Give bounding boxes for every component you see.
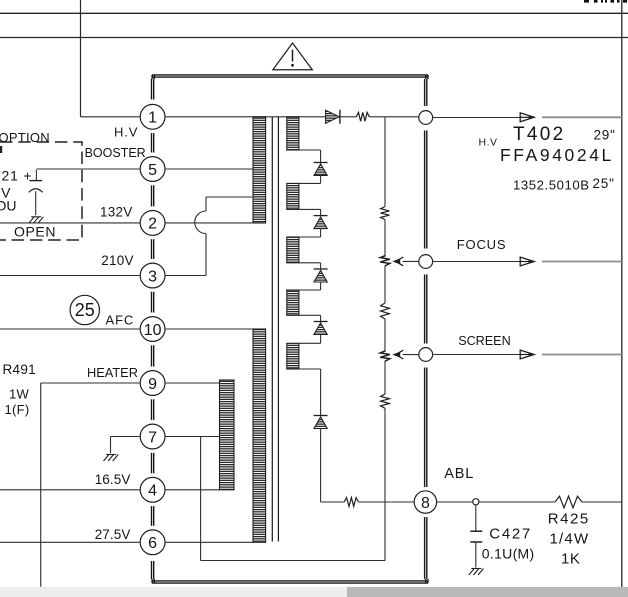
node cropped-label bbox=[584, 0, 627, 3]
resistor divider R1 bbox=[381, 207, 390, 220]
wire bbox=[433, 354, 520, 356]
wire bbox=[384, 266, 386, 303]
wire bbox=[384, 361, 386, 394]
ground bbox=[469, 569, 484, 576]
svg-text:1(F): 1(F) bbox=[5, 402, 30, 417]
capacitor C421 bbox=[29, 170, 43, 216]
label 210V bbox=[101, 253, 134, 268]
wire bbox=[369, 116, 419, 118]
svg-text:7: 7 bbox=[148, 429, 157, 446]
winding primary upper bbox=[253, 117, 266, 223]
wire bbox=[542, 354, 622, 356]
label 132V bbox=[100, 205, 133, 220]
wire bbox=[165, 541, 253, 543]
svg-text:FFA94024L: FFA94024L bbox=[500, 145, 614, 165]
winding heater bbox=[220, 380, 235, 490]
svg-text:H.V: H.V bbox=[114, 125, 138, 140]
label 1352.5010B bbox=[513, 178, 590, 193]
pin 1 bbox=[140, 104, 165, 129]
winding secondary S1 bbox=[287, 117, 299, 150]
label 1/4W bbox=[550, 531, 590, 548]
wire bbox=[433, 117, 520, 119]
svg-text:1K: 1K bbox=[561, 551, 580, 568]
svg-text:16.5V: 16.5V bbox=[95, 472, 131, 487]
wire bbox=[0, 12, 628, 14]
label BOOSTER bbox=[85, 146, 146, 160]
resistor R425 bbox=[555, 496, 582, 508]
wire bbox=[201, 437, 386, 561]
node junction bbox=[473, 499, 479, 505]
wire bbox=[81, 116, 141, 118]
winding primary lower bbox=[253, 329, 266, 542]
svg-text:R425: R425 bbox=[548, 511, 590, 528]
label T402 bbox=[513, 124, 566, 145]
label OPTION bbox=[0, 130, 50, 145]
label AFC bbox=[106, 312, 135, 327]
winding secondary S2 bbox=[287, 183, 299, 209]
wire bbox=[343, 501, 345, 503]
node cropped-label-left bbox=[0, 146, 2, 153]
label OPEN bbox=[14, 224, 56, 240]
wire bbox=[0, 541, 140, 543]
diode D4 bbox=[314, 322, 328, 335]
wire jump bbox=[195, 211, 206, 234]
label 0.1U(M) bbox=[482, 546, 535, 562]
node ref 25 bbox=[70, 295, 99, 324]
pin 3 bbox=[140, 263, 165, 288]
wire bbox=[165, 116, 326, 118]
wire bbox=[621, 0, 623, 597]
svg-text:9: 9 bbox=[148, 376, 157, 393]
terminal SCREEN bbox=[419, 348, 433, 362]
diode D3 bbox=[314, 269, 328, 282]
label 21 + bbox=[2, 168, 33, 184]
resistor divider R2 bbox=[381, 303, 390, 319]
label FOCUS bbox=[457, 237, 507, 252]
wire bbox=[299, 263, 321, 269]
svg-text:R491: R491 bbox=[3, 362, 36, 377]
resistor divider R3 bbox=[381, 394, 390, 408]
wire bbox=[384, 220, 386, 256]
wire bbox=[80, 0, 82, 117]
wire bbox=[299, 209, 321, 215]
svg-text:25": 25" bbox=[593, 176, 615, 191]
wire bbox=[384, 408, 386, 560]
node screen wiper arrow bbox=[392, 350, 419, 359]
svg-text:25: 25 bbox=[75, 300, 95, 320]
svg-text:5: 5 bbox=[148, 162, 157, 179]
wire bbox=[0, 222, 140, 224]
wire bbox=[299, 369, 321, 416]
pin 2 bbox=[140, 211, 165, 236]
wire bbox=[437, 501, 473, 503]
wire bbox=[433, 261, 520, 263]
label SCREEN bbox=[458, 334, 510, 348]
label 27.5V bbox=[95, 527, 131, 542]
svg-text:OU: OU bbox=[0, 198, 17, 214]
wire bbox=[299, 176, 321, 184]
wire bbox=[582, 501, 622, 503]
pin 8 bbox=[414, 491, 436, 513]
option box bbox=[0, 142, 82, 240]
svg-text:BOOSTER: BOOSTER bbox=[85, 146, 146, 160]
node gray strip left bbox=[0, 587, 347, 597]
label 1K bbox=[561, 551, 580, 568]
svg-text:0.1U(M): 0.1U(M) bbox=[482, 546, 535, 562]
svg-text:AFC: AFC bbox=[106, 312, 135, 327]
svg-text:3: 3 bbox=[148, 268, 157, 285]
label 1W bbox=[9, 387, 30, 402]
wire bbox=[384, 117, 386, 206]
terminal H.V bbox=[419, 111, 433, 125]
svg-text:29": 29" bbox=[594, 127, 616, 142]
node H.V lead arrow bbox=[520, 113, 534, 122]
winding secondary S3 bbox=[287, 237, 299, 263]
diode D401 bbox=[326, 110, 340, 124]
terminal FOCUS bbox=[419, 255, 433, 269]
wire bbox=[165, 382, 220, 384]
wire bbox=[41, 383, 141, 587]
pin 9 bbox=[140, 371, 165, 396]
wire bbox=[299, 150, 321, 163]
winding secondary S4 bbox=[287, 290, 299, 315]
svg-text:132V: 132V bbox=[100, 205, 133, 220]
label 1(F) bbox=[5, 402, 30, 417]
svg-text:21 +: 21 + bbox=[2, 168, 33, 184]
wire bbox=[299, 315, 321, 321]
wire bbox=[0, 489, 140, 491]
svg-text:T402: T402 bbox=[513, 124, 566, 145]
wire bbox=[299, 282, 321, 290]
wire bbox=[165, 489, 220, 491]
capacitor C427 bbox=[470, 505, 482, 568]
transformer T402 outline bottom border bbox=[152, 579, 428, 583]
resistor screen wiper bbox=[380, 351, 390, 362]
wire bbox=[384, 319, 386, 351]
node gray strip right bbox=[347, 587, 628, 597]
label H.V bbox=[479, 136, 498, 148]
pin 6 bbox=[140, 530, 165, 555]
wire bbox=[165, 436, 220, 438]
svg-text:8: 8 bbox=[421, 495, 430, 512]
resistor R-hv bbox=[356, 112, 369, 121]
wire bbox=[0, 37, 628, 39]
transformer T402 outline left border bbox=[152, 79, 154, 579]
label 16.5V bbox=[95, 472, 131, 487]
svg-text:SCREEN: SCREEN bbox=[458, 334, 510, 348]
svg-text:210V: 210V bbox=[101, 253, 134, 268]
svg-text:6: 6 bbox=[148, 535, 157, 552]
wire bbox=[321, 429, 345, 503]
svg-text:10: 10 bbox=[144, 322, 162, 339]
svg-text:4: 4 bbox=[148, 483, 157, 500]
wire bbox=[479, 501, 555, 503]
node focus wiper arrow bbox=[392, 257, 419, 266]
label V bbox=[1, 185, 11, 201]
svg-text:FOCUS: FOCUS bbox=[457, 237, 507, 252]
svg-text:1W: 1W bbox=[9, 387, 30, 402]
wire bbox=[206, 197, 253, 211]
svg-text:1/4W: 1/4W bbox=[550, 531, 590, 548]
wire bbox=[36, 168, 140, 170]
svg-text:1352.5010B: 1352.5010B bbox=[513, 178, 590, 193]
resistor R-abl bbox=[344, 498, 358, 507]
pin 10 bbox=[140, 317, 165, 342]
svg-text:HEATER: HEATER bbox=[87, 365, 138, 380]
label ABL bbox=[444, 466, 474, 482]
ground bbox=[104, 455, 119, 462]
wire bbox=[542, 261, 622, 263]
wire bbox=[542, 116, 622, 118]
label FFA94024L bbox=[500, 145, 614, 165]
svg-text:H.V: H.V bbox=[479, 136, 498, 148]
winding secondary S5 bbox=[287, 343, 299, 369]
svg-text:1: 1 bbox=[148, 110, 157, 127]
svg-text:ABL: ABL bbox=[444, 466, 474, 482]
svg-text:OPEN: OPEN bbox=[14, 224, 56, 240]
svg-text:OPTION: OPTION bbox=[0, 130, 50, 145]
wire bbox=[111, 436, 141, 438]
svg-text:C427: C427 bbox=[489, 526, 532, 543]
transformer T402 outline right border bbox=[425, 79, 427, 579]
node SCREEN lead arrow bbox=[520, 350, 534, 359]
wire bbox=[0, 328, 140, 330]
diode D1 bbox=[314, 163, 328, 176]
svg-text:27.5V: 27.5V bbox=[95, 527, 131, 542]
resistor focus wiper bbox=[380, 256, 390, 267]
label HEATER bbox=[87, 365, 138, 380]
label R491 bbox=[3, 362, 36, 377]
core bbox=[272, 117, 278, 542]
wire bbox=[110, 437, 112, 454]
wire bbox=[299, 229, 321, 237]
label H.V bbox=[114, 125, 138, 140]
transformer T402 outline top border bbox=[152, 75, 428, 79]
wire bbox=[341, 116, 357, 118]
label OU bbox=[0, 198, 17, 214]
pin 4 bbox=[140, 477, 165, 502]
label 25" bbox=[593, 176, 615, 191]
wire bbox=[0, 275, 140, 277]
diode D2 bbox=[314, 216, 328, 229]
wire bbox=[165, 168, 253, 170]
pin 5 bbox=[140, 157, 165, 182]
label C427 bbox=[489, 526, 532, 543]
wire bbox=[359, 501, 415, 503]
warning triangle bbox=[273, 43, 312, 70]
node FOCUS lead arrow bbox=[520, 257, 534, 266]
wire bbox=[165, 234, 206, 276]
wire bbox=[165, 328, 253, 330]
pin 7 bbox=[140, 424, 165, 449]
ground bbox=[29, 217, 44, 224]
wire bbox=[299, 335, 321, 344]
label R425 bbox=[548, 511, 590, 528]
wire bbox=[165, 222, 266, 224]
diode D5 bbox=[314, 416, 328, 429]
svg-text:2: 2 bbox=[148, 216, 157, 233]
label 29" bbox=[594, 127, 616, 142]
